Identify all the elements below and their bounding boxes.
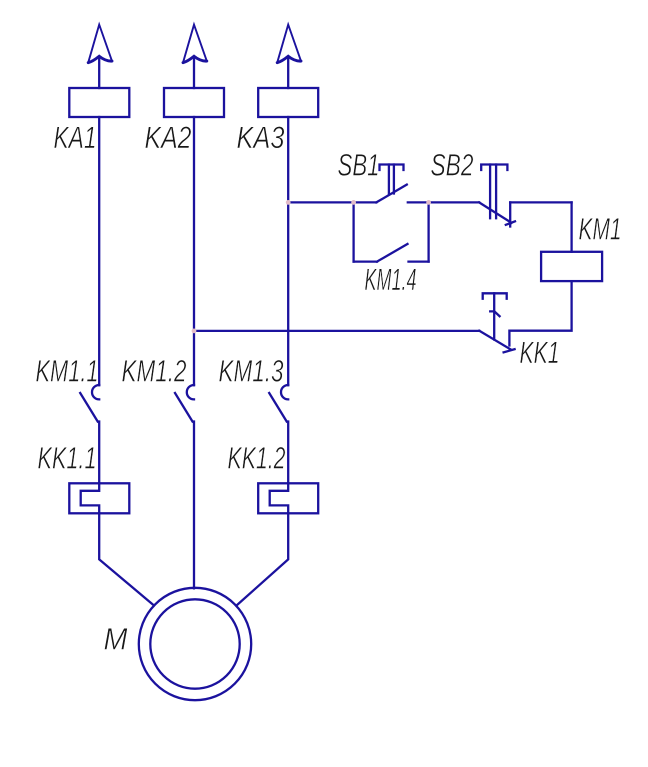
svg-text:KK1.1: KK1.1 (38, 441, 97, 476)
auxiliary contact KM1.4 blade (377, 244, 408, 262)
thermal element KK1.1 (69, 483, 129, 513)
KK1 actuator stem (493, 293, 495, 339)
wire phase1 upper (98, 117, 100, 385)
node junction at phase3 top wire (286, 200, 291, 205)
svg-text:KA1: KA1 (54, 120, 97, 155)
pushbutton SB2 blade (479, 202, 511, 222)
svg-text:KK1.2: KK1.2 (228, 441, 286, 476)
motor M outer circle (139, 588, 251, 700)
wire between SB1 and SB2 (408, 201, 479, 203)
wire corner down to coil (570, 202, 572, 251)
svg-text:KM1.1: KM1.1 (36, 354, 99, 389)
wire arrow1 shaft (98, 58, 100, 89)
svg-text:M: M (104, 622, 128, 657)
thermal element KK1.2 (258, 483, 318, 513)
node junction SB1 right (426, 200, 431, 205)
KK1 thermal return mark (490, 311, 499, 316)
wire phase2 lower (193, 422, 195, 589)
SB2 fixed terminal stub (509, 202, 511, 226)
wire KM1.4 branch left (352, 202, 354, 261)
KK1 actuator head (483, 293, 507, 298)
supply arrow phase 2 (183, 25, 207, 63)
motor M inner circle (150, 599, 239, 688)
relay coil KA1 (69, 88, 129, 117)
wire phase3 upper (287, 117, 289, 385)
relay coil KA2 (164, 88, 224, 117)
svg-text:KA2: KA2 (145, 120, 192, 155)
node junction phase2 bottom wire (192, 329, 197, 334)
wire phase3 mid (287, 422, 289, 484)
contactor main contact KM1.3 (269, 385, 288, 422)
SB1 actuator stem (389, 165, 394, 194)
wire phase1 mid (98, 422, 100, 484)
SB2 contact tick (506, 221, 515, 225)
contactor main contact KM1.2 (175, 385, 194, 422)
svg-text:KM1: KM1 (579, 212, 622, 247)
wire coil bottom (509, 281, 571, 345)
svg-text:KM1.4: KM1.4 (365, 262, 417, 297)
pushbutton SB1 blade (376, 185, 407, 203)
svg-text:SB1: SB1 (338, 148, 380, 183)
wire phase1 to motor (99, 513, 154, 605)
thermal contact KK1 blade (479, 331, 511, 350)
wire control bottom run (194, 330, 479, 332)
SB1 actuator head (380, 165, 404, 171)
svg-text:SB2: SB2 (431, 148, 474, 183)
wire arrow2 shaft (193, 58, 195, 89)
KK1 contact tick (504, 349, 515, 352)
contactor main contact KM1.1 (80, 385, 99, 422)
relay coil KA3 (258, 88, 318, 117)
SB2 actuator stem (490, 165, 496, 219)
svg-text:KM1.2: KM1.2 (122, 354, 187, 389)
wire SB2 to corner (510, 201, 571, 203)
wire KM1.4 branch bottom left (354, 260, 377, 262)
svg-text:KA3: KA3 (237, 120, 285, 155)
supply arrow phase 3 (277, 25, 301, 63)
wire phase2 upper (193, 117, 195, 385)
wire control top run (288, 201, 376, 203)
svg-text:KM1.3: KM1.3 (219, 354, 284, 389)
wire KM1.4 branch right (427, 202, 429, 261)
svg-text:KK1: KK1 (520, 335, 560, 370)
contactor coil KM1 (541, 252, 602, 281)
node junction SB1 left (351, 200, 356, 205)
SB2 actuator head (481, 165, 507, 171)
wire arrow3 shaft (287, 58, 289, 89)
wire KM1.4 branch bottom right (409, 260, 429, 262)
supply arrow phase 1 (88, 25, 112, 63)
wire phase3 to motor (237, 513, 289, 605)
